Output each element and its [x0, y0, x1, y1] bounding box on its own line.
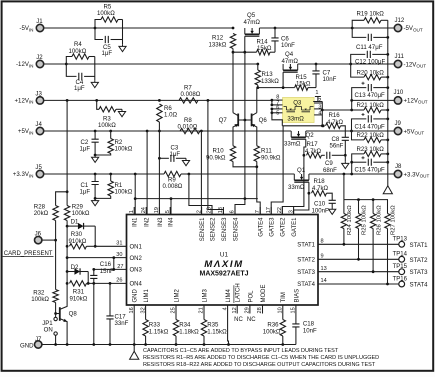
wire bottom ground rail [42, 344, 296, 346]
resistor R10 90.9k [230, 146, 235, 162]
node R9 right [188, 173, 191, 176]
node C1/R1 junction [94, 197, 97, 200]
svg-text:1.0Ω: 1.0Ω [164, 112, 177, 119]
svg-text:D2: D2 [71, 264, 79, 271]
svg-text:MΛXIM: MΛXIM [204, 259, 243, 270]
capacitor C2 1uF [94, 131, 96, 139]
connector J9 +5VOUT [394, 127, 401, 134]
svg-text:100kΩ: 100kΩ [97, 10, 115, 17]
test point TP13 [399, 241, 405, 247]
svg-text:R19 10kΩ: R19 10kΩ [357, 11, 385, 18]
resistor R4 100k bleed [66, 57, 72, 65]
wire Q6/Q7 base join [238, 119, 251, 121]
svg-text:R20 10kΩ: R20 10kΩ [357, 69, 385, 76]
svg-text:20kΩ: 20kΩ [34, 210, 49, 217]
connector J8 +3.3VOUT [394, 170, 401, 177]
svg-text:LIM3: LIM3 [202, 288, 208, 302]
node +5V at C2 [94, 130, 97, 133]
svg-text:90.9kΩ: 90.9kΩ [261, 155, 281, 162]
node +3.3V at C1 [94, 173, 97, 176]
node R17 left [303, 154, 306, 157]
svg-text:7: 7 [255, 210, 261, 213]
wire Q7 collector column from gate node [232, 52, 234, 112]
Q3 pin 2 stub [314, 102, 322, 104]
node Q3 lower bundle [321, 124, 324, 127]
svg-text:R23 10kΩ: R23 10kΩ [357, 146, 385, 153]
wire Q2 gate to R17 [304, 139, 306, 155]
svg-text:J1: J1 [36, 18, 43, 25]
resistor R5 100k bleed [95, 20, 101, 29]
capacitor C16 15nF [92, 268, 95, 271]
wire +12V row to J10 [352, 99, 394, 101]
svg-text:J6: J6 [35, 230, 42, 237]
svg-text:100kΩ: 100kΩ [98, 122, 116, 129]
node C8 bottom [344, 154, 347, 157]
svg-text:J10: J10 [394, 89, 404, 96]
svg-text:BIAS: BIAS [294, 289, 300, 303]
svg-text:0.008Ω: 0.008Ω [163, 183, 183, 190]
svg-text:Q6: Q6 [259, 117, 268, 124]
connector J6 CARD_PRESENT [35, 236, 42, 243]
svg-text:ON: ON [44, 327, 53, 334]
svg-text:1μF: 1μF [102, 50, 113, 57]
wire Q5 source to output [259, 27, 352, 29]
wire -12V row to R13 [66, 63, 257, 65]
resistor R24 100k pull-up [343, 200, 345, 214]
svg-text:TP14: TP14 [393, 252, 408, 258]
svg-text:R11: R11 [261, 147, 272, 154]
svg-text:100nF: 100nF [312, 207, 330, 214]
pin 24 IN2 [145, 207, 147, 215]
wire GATE4 from R10/R11 node [257, 167, 260, 215]
wire ON1 row [95, 245, 126, 247]
svg-text:GATE4: GATE4 [259, 217, 265, 237]
svg-text:Q2: Q2 [306, 132, 315, 139]
svg-text:1: 1 [315, 90, 318, 96]
svg-text:15nF: 15nF [100, 268, 114, 275]
svg-text:1μF: 1μF [80, 188, 91, 195]
svg-text:4: 4 [318, 110, 321, 116]
svg-text:47mΩ: 47mΩ [282, 58, 299, 65]
resistor R31 910k [66, 272, 68, 284]
LATCH overline [233, 285, 235, 303]
resistor R23 10k discharge [352, 154, 364, 174]
ground at C1 [92, 198, 99, 205]
transistor Q2 33mohm MOSFET [291, 131, 306, 137]
capacitor C18 10nF [295, 305, 297, 324]
svg-text:68nF: 68nF [323, 167, 337, 174]
svg-text:18: 18 [218, 207, 224, 213]
node +5V at R6 bottom [158, 130, 161, 133]
pin 18 SENSE3 [222, 207, 224, 215]
wire SENSE4 from bus [235, 199, 245, 215]
svg-text:J9: J9 [395, 120, 402, 127]
svg-text:33mΩ: 33mΩ [288, 184, 305, 191]
svg-text:R10: R10 [213, 147, 225, 154]
svg-text:4.7kΩ: 4.7kΩ [305, 148, 322, 155]
svg-text:SENSE2: SENSE2 [210, 217, 216, 241]
svg-text:TP13: TP13 [393, 237, 408, 243]
wire +5V row to Q2 [44, 130, 291, 132]
svg-text:SENSE1: SENSE1 [200, 217, 206, 241]
wire Q5 gate line [233, 51, 257, 53]
wire +3.3V to pull-up rail [343, 174, 345, 200]
svg-text:Q8: Q8 [69, 310, 78, 317]
connector J5 +3.3VIN [36, 170, 43, 177]
svg-text:C12 100μF: C12 100μF [355, 58, 386, 65]
svg-text:STAT2: STAT2 [297, 258, 315, 264]
svg-text:100kΩ: 100kΩ [115, 188, 133, 195]
capacitor C8 56nF [342, 137, 349, 140]
wire J2 row [44, 63, 66, 65]
svg-text:90.9kΩ: 90.9kΩ [206, 155, 226, 162]
wire IN4 feed from bus [170, 199, 172, 215]
wire SENSE2 from R9 node [189, 174, 212, 215]
svg-text:R18: R18 [314, 178, 326, 185]
svg-text:J5: J5 [35, 164, 42, 171]
pin 1 IN1 [133, 207, 135, 215]
svg-text:100kΩ: 100kΩ [115, 146, 133, 153]
svg-text:LATCH: LATCH [236, 283, 242, 302]
wire STAT4 to TP16 [318, 283, 399, 285]
svg-text:15kΩ: 15kΩ [296, 80, 311, 87]
svg-text:J4: J4 [35, 121, 42, 128]
resistor R28 20k [56, 192, 68, 206]
capacitor C10 100nF [329, 200, 336, 203]
connector J4 +5VIN [36, 127, 43, 134]
node R13 top on -12V row [256, 63, 259, 66]
svg-text:100kΩ: 100kΩ [72, 210, 90, 217]
node IN1 bus junction [134, 197, 137, 200]
svg-text:1μF: 1μF [170, 151, 181, 158]
ground at R3 [118, 109, 125, 116]
svg-text:1μF: 1μF [74, 85, 85, 92]
wire GATE2 column [282, 155, 304, 214]
svg-text:CARD_PRESENT: CARD_PRESENT [4, 251, 53, 257]
capacitor C7 10nF [315, 63, 318, 66]
ground at C3 [182, 158, 189, 165]
wire IN2 feed from +5V row [146, 130, 149, 133]
svg-text:17: 17 [266, 207, 272, 213]
resistor R27 100k pull-up [387, 200, 389, 214]
svg-text:31: 31 [116, 241, 122, 247]
wire Q3 output to +12V output section [322, 109, 351, 111]
svg-text:TP16: TP16 [393, 276, 408, 282]
svg-text:33mΩ: 33mΩ [287, 115, 304, 122]
svg-text:MAX5927AETJ: MAX5927AETJ [199, 271, 248, 278]
svg-text:GND: GND [133, 289, 139, 303]
ground at C5 [119, 44, 126, 51]
wire Q2 source to +5V output [306, 130, 352, 132]
svg-text:47mΩ: 47mΩ [244, 19, 261, 26]
svg-text:6: 6 [230, 210, 236, 213]
ground at C8/C9 [342, 161, 349, 168]
pin stub POL NC [249, 305, 251, 314]
svg-text:GND: GND [20, 342, 34, 349]
node gate tap [243, 51, 246, 54]
svg-text:3: 3 [288, 210, 294, 213]
svg-text:33nF: 33nF [115, 320, 129, 327]
svg-text:IN1: IN1 [133, 217, 139, 227]
svg-text:33mΩ: 33mΩ [284, 141, 301, 148]
svg-text:1.18kΩ: 1.18kΩ [179, 328, 199, 335]
svg-text:GATE2: GATE2 [281, 217, 287, 237]
wire +3.3V row to Q1 [189, 173, 295, 175]
wire under-box to R16 [282, 125, 323, 127]
svg-text:1.15kΩ: 1.15kΩ [207, 328, 227, 335]
resistor R29 100k [66, 192, 68, 206]
node R7 right [207, 99, 210, 102]
node bus at Q6/Q7 base column [244, 197, 247, 200]
svg-text:IN3: IN3 [158, 217, 164, 227]
svg-text:Q3: Q3 [293, 100, 302, 107]
capacitor C3 1uF [158, 157, 161, 160]
op-amp U1 MAX5927AETJ body [127, 215, 319, 306]
svg-text:4.7kΩ: 4.7kΩ [327, 119, 344, 126]
svg-text:100kΩ: 100kΩ [69, 48, 87, 55]
node Q4 gate tap [282, 86, 285, 89]
wire ON2 row [66, 246, 68, 257]
wire R4/C4 ground leg [94, 57, 96, 81]
capacitor C15 470uF [350, 161, 353, 164]
svg-text:R21 10kΩ: R21 10kΩ [357, 102, 385, 109]
resistor R17 4.7k [307, 153, 322, 158]
svg-text:STAT2: STAT2 [410, 257, 429, 264]
svg-text:0.008Ω: 0.008Ω [181, 91, 201, 98]
svg-text:5: 5 [165, 210, 171, 213]
svg-text:STAT4: STAT4 [297, 282, 315, 288]
svg-text:R36: R36 [267, 321, 279, 328]
wire Q6 collector column to R13 node [256, 88, 258, 113]
svg-text:MODE: MODE [261, 285, 267, 303]
wire SENSE1 from R8 node [200, 131, 202, 215]
node ON2 jog [112, 256, 115, 259]
connector J2 -12VIN [36, 60, 43, 67]
svg-text:R25 100kΩ: R25 100kΩ [362, 205, 368, 235]
wire sense bus [135, 198, 258, 200]
svg-text:POL: POL [248, 290, 254, 303]
wire R28/R29 feed from +12V [66, 100, 68, 191]
resistor R18 4.7k [312, 191, 327, 196]
pin 3 GATE1 [293, 207, 295, 215]
wire STAT1 to TP13 [318, 243, 399, 245]
highlight box Q3 [283, 97, 315, 122]
svg-text:STAT1: STAT1 [410, 242, 429, 249]
svg-text:C18: C18 [303, 320, 315, 327]
svg-text:ON4: ON4 [130, 282, 143, 288]
svg-text:STAT4: STAT4 [410, 282, 429, 289]
wire D2 to ON4 [87, 272, 89, 284]
svg-text:19: 19 [154, 207, 160, 213]
node +5V at R2 [109, 130, 112, 133]
wire Q3 right pin bundle [321, 102, 323, 126]
svg-text:10nF: 10nF [281, 42, 295, 49]
node R18 left [308, 192, 311, 195]
ground at C10 [329, 207, 336, 214]
resistor R2 100k bleed [110, 131, 112, 139]
svg-text:26: 26 [116, 278, 122, 284]
Q3 pin 1 stub [313, 97, 318, 102]
connector J3 +12VIN [36, 97, 43, 104]
resistor R22 10k discharge [352, 131, 365, 140]
svg-text:ON2: ON2 [130, 256, 143, 262]
resistor R35 1.15k [203, 305, 205, 320]
pin 17 GATE3 [270, 207, 272, 215]
node Q5 drain on -5V row [232, 27, 235, 30]
svg-text:STAT1: STAT1 [297, 243, 315, 249]
svg-text:STAT3: STAT3 [410, 269, 429, 276]
wire pull-up rail [344, 199, 388, 201]
svg-text:LIM2: LIM2 [174, 288, 180, 302]
test point TP15 [399, 269, 405, 275]
ground at C2 [92, 155, 99, 162]
wire J1 to R5 node [44, 27, 95, 29]
svg-text:1.15kΩ: 1.15kΩ [149, 328, 169, 335]
svg-text:5: 5 [276, 110, 279, 116]
svg-text:30: 30 [116, 252, 122, 258]
svg-text:23: 23 [207, 207, 213, 213]
svg-text:133kΩ: 133kΩ [209, 41, 227, 48]
node +3.3V at R1 [109, 173, 112, 176]
connector J12 -5VOUT [394, 24, 401, 31]
ground main triangle [133, 345, 135, 352]
wire GND pin 16 to rail [133, 305, 135, 345]
svg-text:SENSE3: SENSE3 [222, 217, 228, 241]
pin 5 IN4 [169, 207, 171, 215]
wire STAT2 to TP14 [318, 258, 399, 260]
resistor R6 1.0ohm [157, 104, 162, 122]
node +12V at R3 [95, 99, 98, 102]
svg-text:R17: R17 [307, 141, 319, 148]
diode D2 [66, 258, 68, 272]
node R26 rail [372, 198, 375, 201]
wire IN3 feed from R6/C3 column [158, 122, 160, 215]
capacitor C9 68nF [327, 152, 330, 159]
resistor R21 10k discharge [351, 100, 353, 110]
Q3 left pin column [271, 100, 273, 105]
connector J11 -12VOUT [394, 60, 401, 67]
connector J7 GND [35, 341, 42, 348]
resistor R15 15k [295, 85, 308, 90]
svg-text:100kΩ: 100kΩ [31, 296, 49, 303]
resistor R9 0.008ohm sense [164, 171, 181, 176]
wire +3.3V row to J8 [352, 173, 394, 175]
transistor Q7 PNP [237, 114, 239, 127]
diode D1 [66, 225, 69, 228]
svg-text:56nF: 56nF [330, 143, 344, 150]
resistor R7 0.008ohm sense [179, 98, 198, 103]
resistor R8 0.010ohm sense [180, 128, 200, 133]
svg-text:1: 1 [129, 210, 135, 213]
Q3 pin 5 stub [272, 112, 283, 114]
wire +5V row to J9 [352, 130, 395, 132]
transistor Q1 33mohm MOSFET [294, 174, 309, 180]
svg-text:R16: R16 [329, 112, 341, 119]
svg-text:24: 24 [141, 207, 147, 213]
svg-text:SENSE4: SENSE4 [233, 217, 239, 241]
svg-text:C14 470μF: C14 470μF [355, 123, 386, 130]
resistor R14 15k [257, 50, 271, 55]
pin 19 IN3 [158, 207, 160, 215]
svg-text:Q7: Q7 [219, 117, 228, 124]
wire Q4 source to output [298, 63, 351, 65]
svg-text:2: 2 [196, 210, 202, 213]
node C2/R2 junction [94, 154, 97, 157]
pin stub LATCH NC [236, 305, 238, 314]
resistor R11 90.9k [254, 146, 259, 162]
capacitor C17 33nF [109, 283, 111, 316]
svg-text:J12: J12 [395, 17, 405, 24]
resistor R26 100k pull-up [372, 200, 374, 214]
svg-text:14: 14 [321, 278, 327, 284]
svg-text:R26 100kΩ: R26 100kΩ [376, 205, 382, 235]
wire -5V row to Q5 [95, 27, 233, 29]
svg-text:R27 100kΩ: R27 100kΩ [391, 205, 397, 235]
resistor R13 133k [257, 64, 259, 70]
pin 7 GATE4 [259, 207, 261, 215]
Q3 pin 4 stub [314, 114, 322, 116]
wire -5V row to J12 [352, 27, 394, 29]
svg-text:RESISTORS R1–R5 ARE ADDED TO D: RESISTORS R1–R5 ARE ADDED TO DISCHARGE C… [143, 355, 379, 361]
svg-text:133kΩ: 133kΩ [261, 78, 279, 85]
resistor R33 1.15k [145, 305, 147, 320]
wire C16 ground column [93, 283, 95, 344]
wire Q4 gate line [258, 87, 295, 89]
Q3 pin 7 stub [272, 104, 283, 106]
wire STAT3 to TP15 [318, 271, 399, 273]
node pull-up rail tap [343, 173, 346, 176]
wire output ground rail [387, 20, 389, 186]
wire IN1 feed from +3.3V row [134, 173, 137, 176]
svg-text:CAPACITORS C1–C5 ARE ADDED TO: CAPACITORS C1–C5 ARE ADDED TO BYPASS INP… [143, 348, 339, 354]
capacitor C13 470uF [352, 88, 367, 101]
svg-text:R22 10kΩ: R22 10kΩ [357, 132, 385, 139]
svg-text:D1: D1 [71, 218, 79, 225]
wire Q1 source to +3.3V output [309, 173, 352, 175]
svg-text:IN4: IN4 [169, 217, 175, 227]
svg-text:R34: R34 [179, 321, 191, 328]
node R28/R29 split [66, 190, 69, 193]
svg-text:C11 47μF: C11 47μF [356, 44, 383, 51]
node R8 right [200, 130, 203, 133]
resistor R30 910k [66, 226, 68, 246]
Q3 pin 8 stub [272, 99, 283, 101]
svg-text:ON1: ON1 [130, 245, 143, 251]
wire ON4 row [87, 282, 127, 284]
svg-text:R33: R33 [149, 321, 161, 328]
node R25 rail [357, 198, 360, 201]
pin 23 SENSE2 [211, 207, 213, 215]
svg-text:NC: NC [247, 317, 256, 323]
ground output rail triangle [383, 186, 392, 194]
pin 2 SENSE1 [201, 207, 203, 215]
svg-text:J11: J11 [395, 53, 405, 60]
svg-text:LIM1: LIM1 [144, 288, 150, 302]
node R12 bottom gate node [232, 51, 235, 54]
svg-text:Q1: Q1 [297, 167, 306, 174]
transistor Q8 NPN [54, 312, 57, 315]
svg-text:J7: J7 [35, 336, 42, 343]
wire +3.3V row to R9 [44, 173, 164, 175]
connector J1 -5VIN [36, 24, 43, 31]
node R13 bottom gate node [256, 86, 259, 89]
capacitor C6 10nF [274, 27, 277, 30]
svg-text:10nF: 10nF [303, 327, 317, 334]
resistor R3 100k bleed [97, 100, 99, 109]
svg-text:U1: U1 [220, 252, 229, 259]
node +12V at R28 column [66, 99, 69, 102]
svg-text:IN2: IN2 [145, 217, 151, 227]
